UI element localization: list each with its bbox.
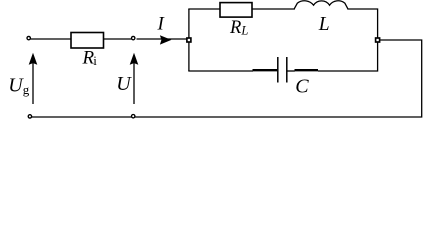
svg-text:C: C <box>295 76 309 98</box>
current arrow I on wire <box>160 35 172 44</box>
voltage arrow Ug <box>29 53 38 104</box>
resistor RL <box>220 3 252 18</box>
svg-text:L: L <box>318 14 330 35</box>
wire: capacitor right plate to thick lead <box>288 70 295 72</box>
wire: thick lead right of capacitor <box>295 69 319 71</box>
capacitor C <box>278 57 287 83</box>
voltage arrow U <box>130 53 139 104</box>
wire: resistor Ri to terminal 2 <box>104 38 132 40</box>
inductor L <box>294 1 348 9</box>
wire: resistor RL to inductor L <box>252 8 295 10</box>
node J2: right junction <box>376 38 380 42</box>
wire: main top wire from terminal to resistor Ri <box>31 38 72 40</box>
wire: J2 to right outer corner and down <box>32 40 422 117</box>
wire: thick lead into capacitor left plate <box>253 69 278 71</box>
terminal: top middle terminal <box>132 36 135 39</box>
wire: J1 up to top rail <box>188 9 190 38</box>
svg-text:U: U <box>116 73 132 95</box>
wire: capacitor branch left segment <box>188 70 253 72</box>
wire: terminal 2 to node junction J1 <box>137 38 189 40</box>
terminal: bottom-left terminal <box>28 115 31 118</box>
resistor Ri <box>71 33 104 49</box>
wire: inductor to top-right corner and down to node J2 <box>347 9 377 38</box>
wire: J1 down to capacitor branch <box>188 42 190 71</box>
terminal: top-left input terminal <box>27 36 30 39</box>
wire: top rail left segment to resistor RL <box>188 8 220 10</box>
node J1: junction of RL-L branch and C branch <box>187 38 191 42</box>
wire: capacitor branch right segment up to J2 <box>318 42 378 71</box>
terminal: bottom middle terminal <box>132 115 135 118</box>
